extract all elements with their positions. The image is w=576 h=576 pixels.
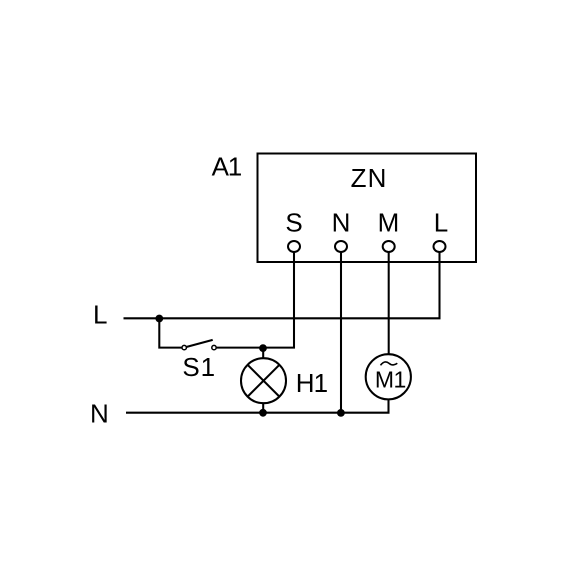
terminal M: [383, 241, 395, 252]
wire junction to lamp top: [262, 348, 264, 359]
svg-text:M1: M1: [375, 367, 406, 393]
motor M1: [366, 354, 411, 399]
svg-text:S1: S1: [182, 352, 216, 382]
svg-text:A1: A1: [212, 152, 242, 182]
terminal N: [335, 241, 347, 252]
node junction on L line: [155, 315, 163, 323]
wire L line branch to switch: [159, 318, 182, 347]
lamp H1: [241, 358, 286, 403]
svg-text:L: L: [434, 208, 448, 238]
svg-text:N: N: [90, 399, 109, 429]
wire N terminal down: [340, 252, 342, 413]
wire L line: [124, 252, 440, 318]
svg-text:N: N: [332, 208, 351, 238]
svg-text:M: M: [378, 208, 400, 238]
wire lamp bottom to N line: [262, 403, 264, 413]
node junction N terminal on N line: [337, 409, 345, 417]
node junction lamp on N line: [259, 409, 267, 417]
switch S1 left contact: [182, 345, 186, 349]
svg-text:S: S: [285, 208, 302, 238]
svg-text:ZN: ZN: [351, 163, 388, 193]
wire M terminal to motor: [388, 252, 390, 355]
svg-text:H1: H1: [296, 368, 328, 398]
terminal L: [434, 241, 446, 252]
node junction above lamp: [259, 344, 267, 352]
switch S1 right contact: [212, 345, 216, 349]
wire N line: [126, 399, 389, 413]
svg-text:L: L: [93, 300, 107, 330]
terminal S: [288, 241, 300, 252]
switch S1 blade: [187, 340, 213, 347]
controller box A1: [258, 154, 477, 263]
wire S terminal to switch: [217, 252, 294, 348]
